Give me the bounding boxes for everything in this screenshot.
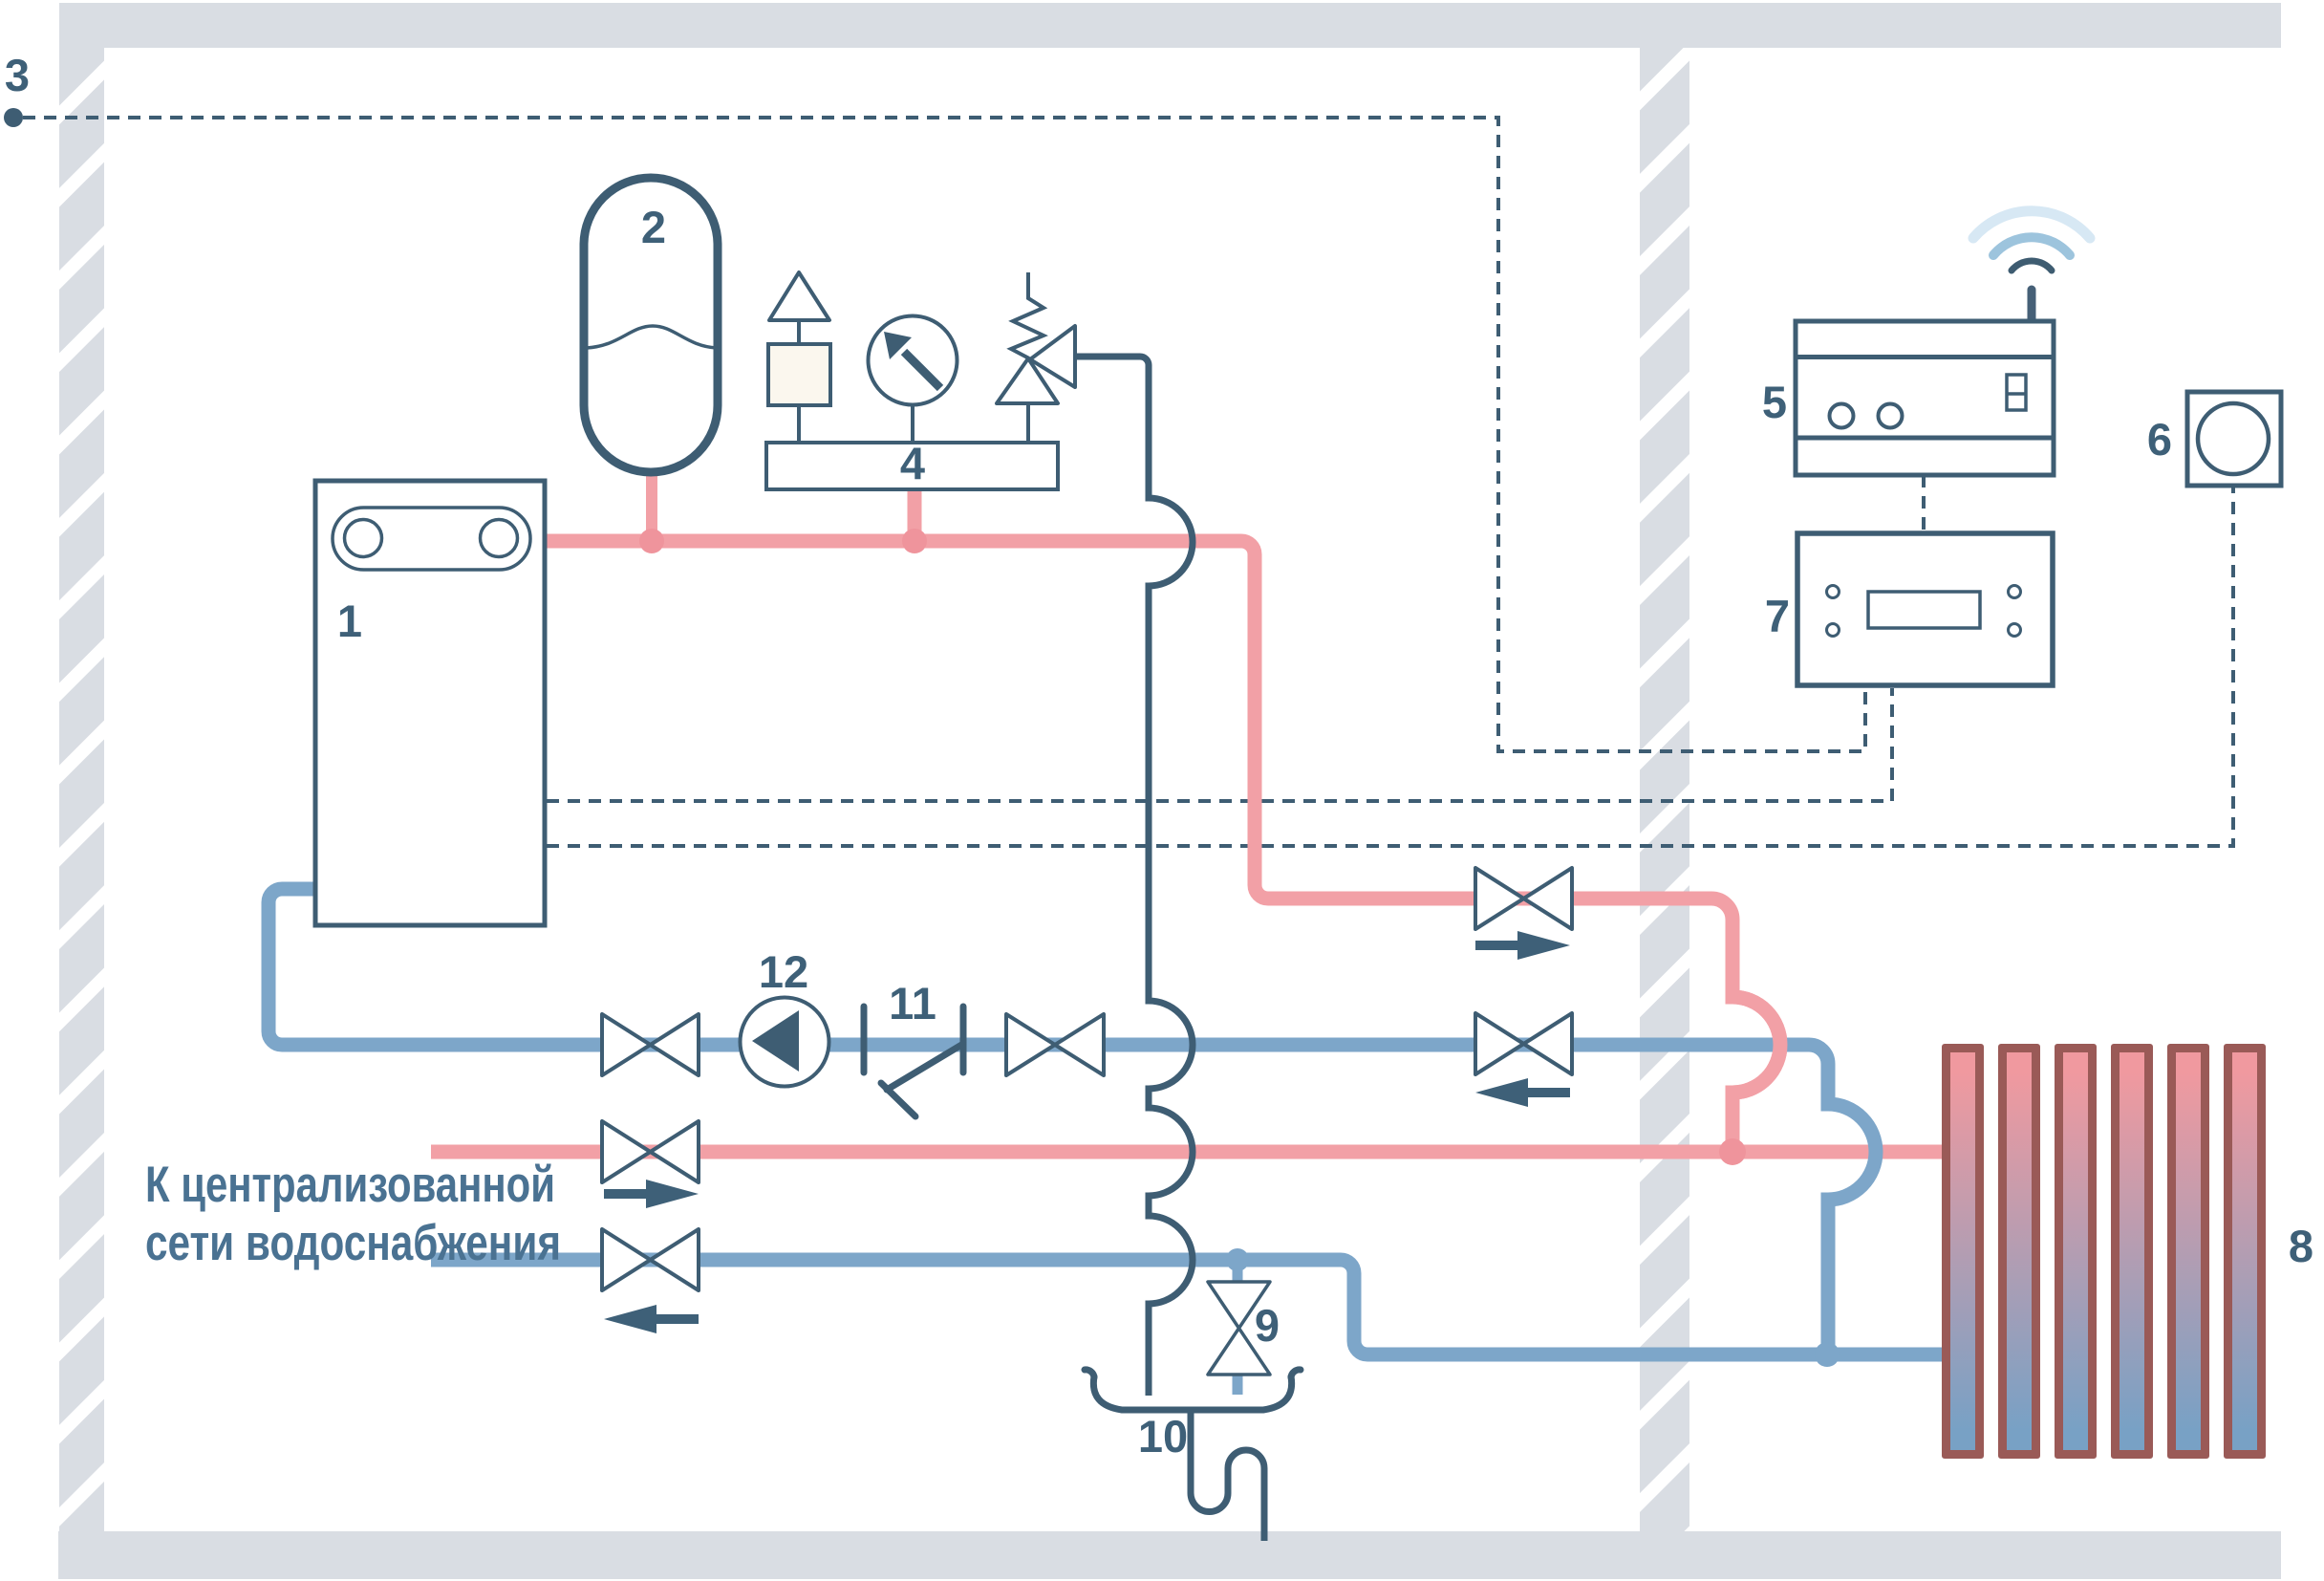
control unit 5 xyxy=(1796,290,2054,475)
svg-text:11: 11 xyxy=(889,978,936,1029)
svg-text:сети водоснабжения: сети водоснабжения xyxy=(145,1215,561,1271)
pressure gauge on manifold xyxy=(869,316,958,444)
wifi arcs xyxy=(1973,211,2090,271)
valve: red DHW shutoff xyxy=(602,1121,699,1182)
node: blue tee at drain valve xyxy=(1226,1248,1249,1271)
pipe: red DHW line xyxy=(431,1145,1946,1159)
drain funnel 10 xyxy=(1093,1376,1291,1410)
pipe: red stub to tank 2 xyxy=(646,470,657,541)
node: red tee at safety group xyxy=(902,529,927,553)
pump 12 xyxy=(741,998,829,1087)
svg-text:9: 9 xyxy=(1255,1300,1280,1351)
svg-text:3: 3 xyxy=(5,50,30,100)
arrow right under DHW valve xyxy=(604,1180,699,1208)
node: blue tee at radiator return xyxy=(1815,1342,1840,1367)
svg-text:2: 2 xyxy=(641,202,666,252)
node: red tee at DHW join xyxy=(1719,1138,1746,1165)
valve: blue right-room xyxy=(1475,1013,1572,1074)
wire: dashed sensor 3 line xyxy=(23,118,1865,751)
arrow right under red right-room valve xyxy=(1475,931,1570,960)
wall: middle (hatched) xyxy=(1640,48,1689,1533)
svg-text:7: 7 xyxy=(1765,591,1790,641)
sensor 3 dot xyxy=(4,108,23,127)
check valve 11 xyxy=(864,1007,963,1116)
drain trap xyxy=(1191,1412,1264,1541)
safety relief valve on manifold xyxy=(997,272,1075,443)
wire: dashed boiler to unit 7 xyxy=(547,688,1892,801)
svg-text:4: 4 xyxy=(900,438,925,488)
svg-text:10: 10 xyxy=(1138,1411,1188,1462)
pipe: safety valve discharge to drain xyxy=(1075,357,1193,1396)
pipe: blue boiler return xyxy=(269,889,1876,1354)
node: red tee at tank xyxy=(639,529,664,553)
room thermostat 7 xyxy=(1797,533,2053,685)
valve: blue return at boiler xyxy=(602,1014,699,1075)
pipe: blue stub to drain valve 9 xyxy=(1233,1260,1243,1395)
svg-text:1: 1 xyxy=(337,596,362,646)
arrow left under blue right-room valve xyxy=(1475,1078,1570,1107)
radiator 8 xyxy=(1942,1044,2266,1459)
valve: blue inlet shutoff xyxy=(602,1229,699,1290)
air vent on manifold xyxy=(768,272,830,443)
pipe: blue cold inlet xyxy=(431,1260,1946,1354)
wire: dashed unit 5 to unit 7 xyxy=(1922,475,1926,533)
pipe: red stub to safety group 4 xyxy=(908,489,922,541)
svg-text:5: 5 xyxy=(1762,377,1787,427)
safety group 4: manifold xyxy=(766,443,1058,489)
boiler 1 xyxy=(315,481,545,925)
wall: floor xyxy=(58,1531,2281,1579)
expansion tank 2 xyxy=(584,178,718,472)
valve: blue return second xyxy=(1006,1014,1104,1075)
pipe: red supply main xyxy=(545,541,1780,1152)
wall: top xyxy=(59,3,2281,48)
pipe: red hop overlay above blue return xyxy=(1732,997,1780,1093)
valve: red right-room xyxy=(1475,868,1572,929)
svg-text:6: 6 xyxy=(2147,414,2172,465)
wall: left (hatched) xyxy=(59,46,104,1533)
outdoor sensor 6 xyxy=(2187,392,2281,486)
drain valve 9 xyxy=(1208,1282,1270,1375)
svg-text:8: 8 xyxy=(2289,1221,2313,1271)
svg-text:К централизованной: К централизованной xyxy=(145,1157,555,1213)
wire: dashed boiler to sensor 6 xyxy=(547,486,2233,846)
arrow left under inlet valve xyxy=(604,1305,699,1333)
svg-text:12: 12 xyxy=(759,946,808,997)
